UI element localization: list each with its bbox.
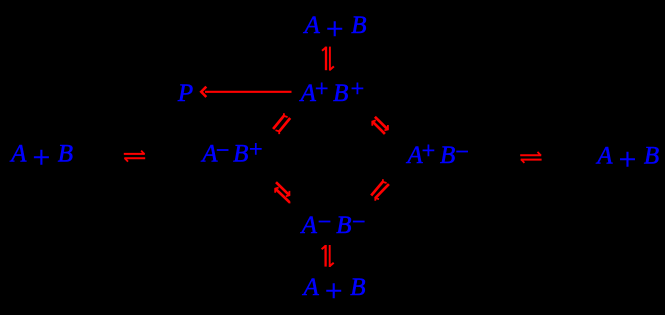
species P	[177, 80, 193, 107]
species A+B top	[303, 11, 367, 46]
equilibrium arrow horizontal left	[124, 151, 145, 162]
svg-text:P: P	[177, 80, 193, 107]
equilibrium arrow diagonal upper-right	[372, 117, 388, 134]
equilibrium arrow horizontal right	[520, 152, 541, 163]
species A+B right outer	[595, 141, 659, 176]
species A+B- right center	[405, 139, 470, 170]
species A-B+ left center	[200, 137, 263, 168]
species A+B bottom	[302, 273, 366, 308]
species A+B+ center top	[299, 77, 366, 108]
arrow A+B+ to P	[201, 87, 291, 97]
equilibrium arrow vertical top	[322, 47, 334, 71]
equilibrium arrow diagonal lower-left	[275, 182, 289, 203]
species A+B left outer	[9, 140, 73, 175]
species A-B- center bottom	[300, 209, 367, 239]
equilibrium arrow diagonal upper-left	[273, 113, 290, 134]
equilibrium arrow vertical bottom	[322, 245, 334, 267]
equilibrium arrow diagonal lower-right	[371, 179, 389, 201]
